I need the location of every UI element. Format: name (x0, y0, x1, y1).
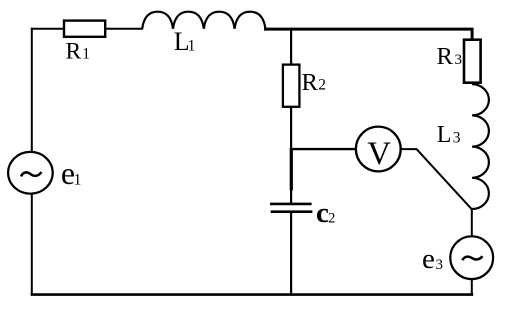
wire capacitor to bottom wire (290, 212, 292, 295)
svg-text:3: 3 (436, 257, 444, 273)
svg-text:c: c (316, 197, 329, 229)
svg-text:L: L (437, 122, 452, 148)
resistor R1 (64, 21, 105, 37)
capacitor c2 bottom plate (271, 210, 313, 213)
wire bottom horizontal (31, 293, 474, 296)
svg-text:1: 1 (188, 37, 196, 54)
wire voltmeter right (401, 148, 417, 150)
svg-text:2: 2 (328, 210, 335, 226)
source e1 (8, 152, 53, 194)
label R1 (66, 38, 91, 64)
wire R2 bottom to node (290, 107, 292, 149)
label e3 (422, 243, 443, 275)
label R3 (437, 43, 463, 70)
wire L3 junction to e3 (471, 209, 473, 237)
label c2 (316, 197, 335, 229)
label L3 (437, 122, 461, 148)
svg-text:R: R (437, 43, 454, 70)
svg-text:1: 1 (82, 46, 90, 63)
inductor L1 (142, 12, 265, 29)
wire e3 bottom to bottom wire (471, 279, 473, 295)
source e3 (450, 236, 493, 279)
wire thick vertical into R3 (471, 28, 474, 40)
wire top-right thick horizontal (264, 28, 473, 31)
svg-text:3: 3 (453, 129, 461, 146)
voltmeter V (356, 127, 401, 172)
label e1 (61, 155, 81, 191)
svg-text:2: 2 (318, 77, 326, 94)
wire left vertical lower (e1 bottom to bottom corner) (31, 194, 33, 296)
svg-text:e: e (422, 243, 435, 275)
svg-text:V: V (367, 136, 391, 172)
capacitor c2 top plate (270, 203, 312, 206)
label R2 (302, 69, 327, 96)
wire thin vertical to capacitor (290, 190, 292, 205)
wire R1 to L1 (106, 28, 144, 30)
label L1 (174, 27, 196, 56)
svg-text:R: R (66, 38, 82, 64)
wire thick vertical below node (290, 148, 293, 191)
resistor R2 (283, 65, 300, 107)
wire top-left horizontal from left corner to R1 (31, 28, 65, 30)
svg-text:3: 3 (455, 52, 463, 68)
svg-text:1: 1 (74, 171, 82, 188)
svg-text:R: R (302, 69, 319, 96)
node junction and wire to voltmeter (290, 148, 356, 150)
wire left vertical upper (corner to e1 top) (31, 28, 33, 153)
resistor R3 (464, 40, 481, 83)
wire middle vertical from top wire to R2 (290, 29, 292, 65)
inductor L3 (472, 84, 489, 209)
wire diagonal voltmeter to e3 node (416, 149, 472, 210)
